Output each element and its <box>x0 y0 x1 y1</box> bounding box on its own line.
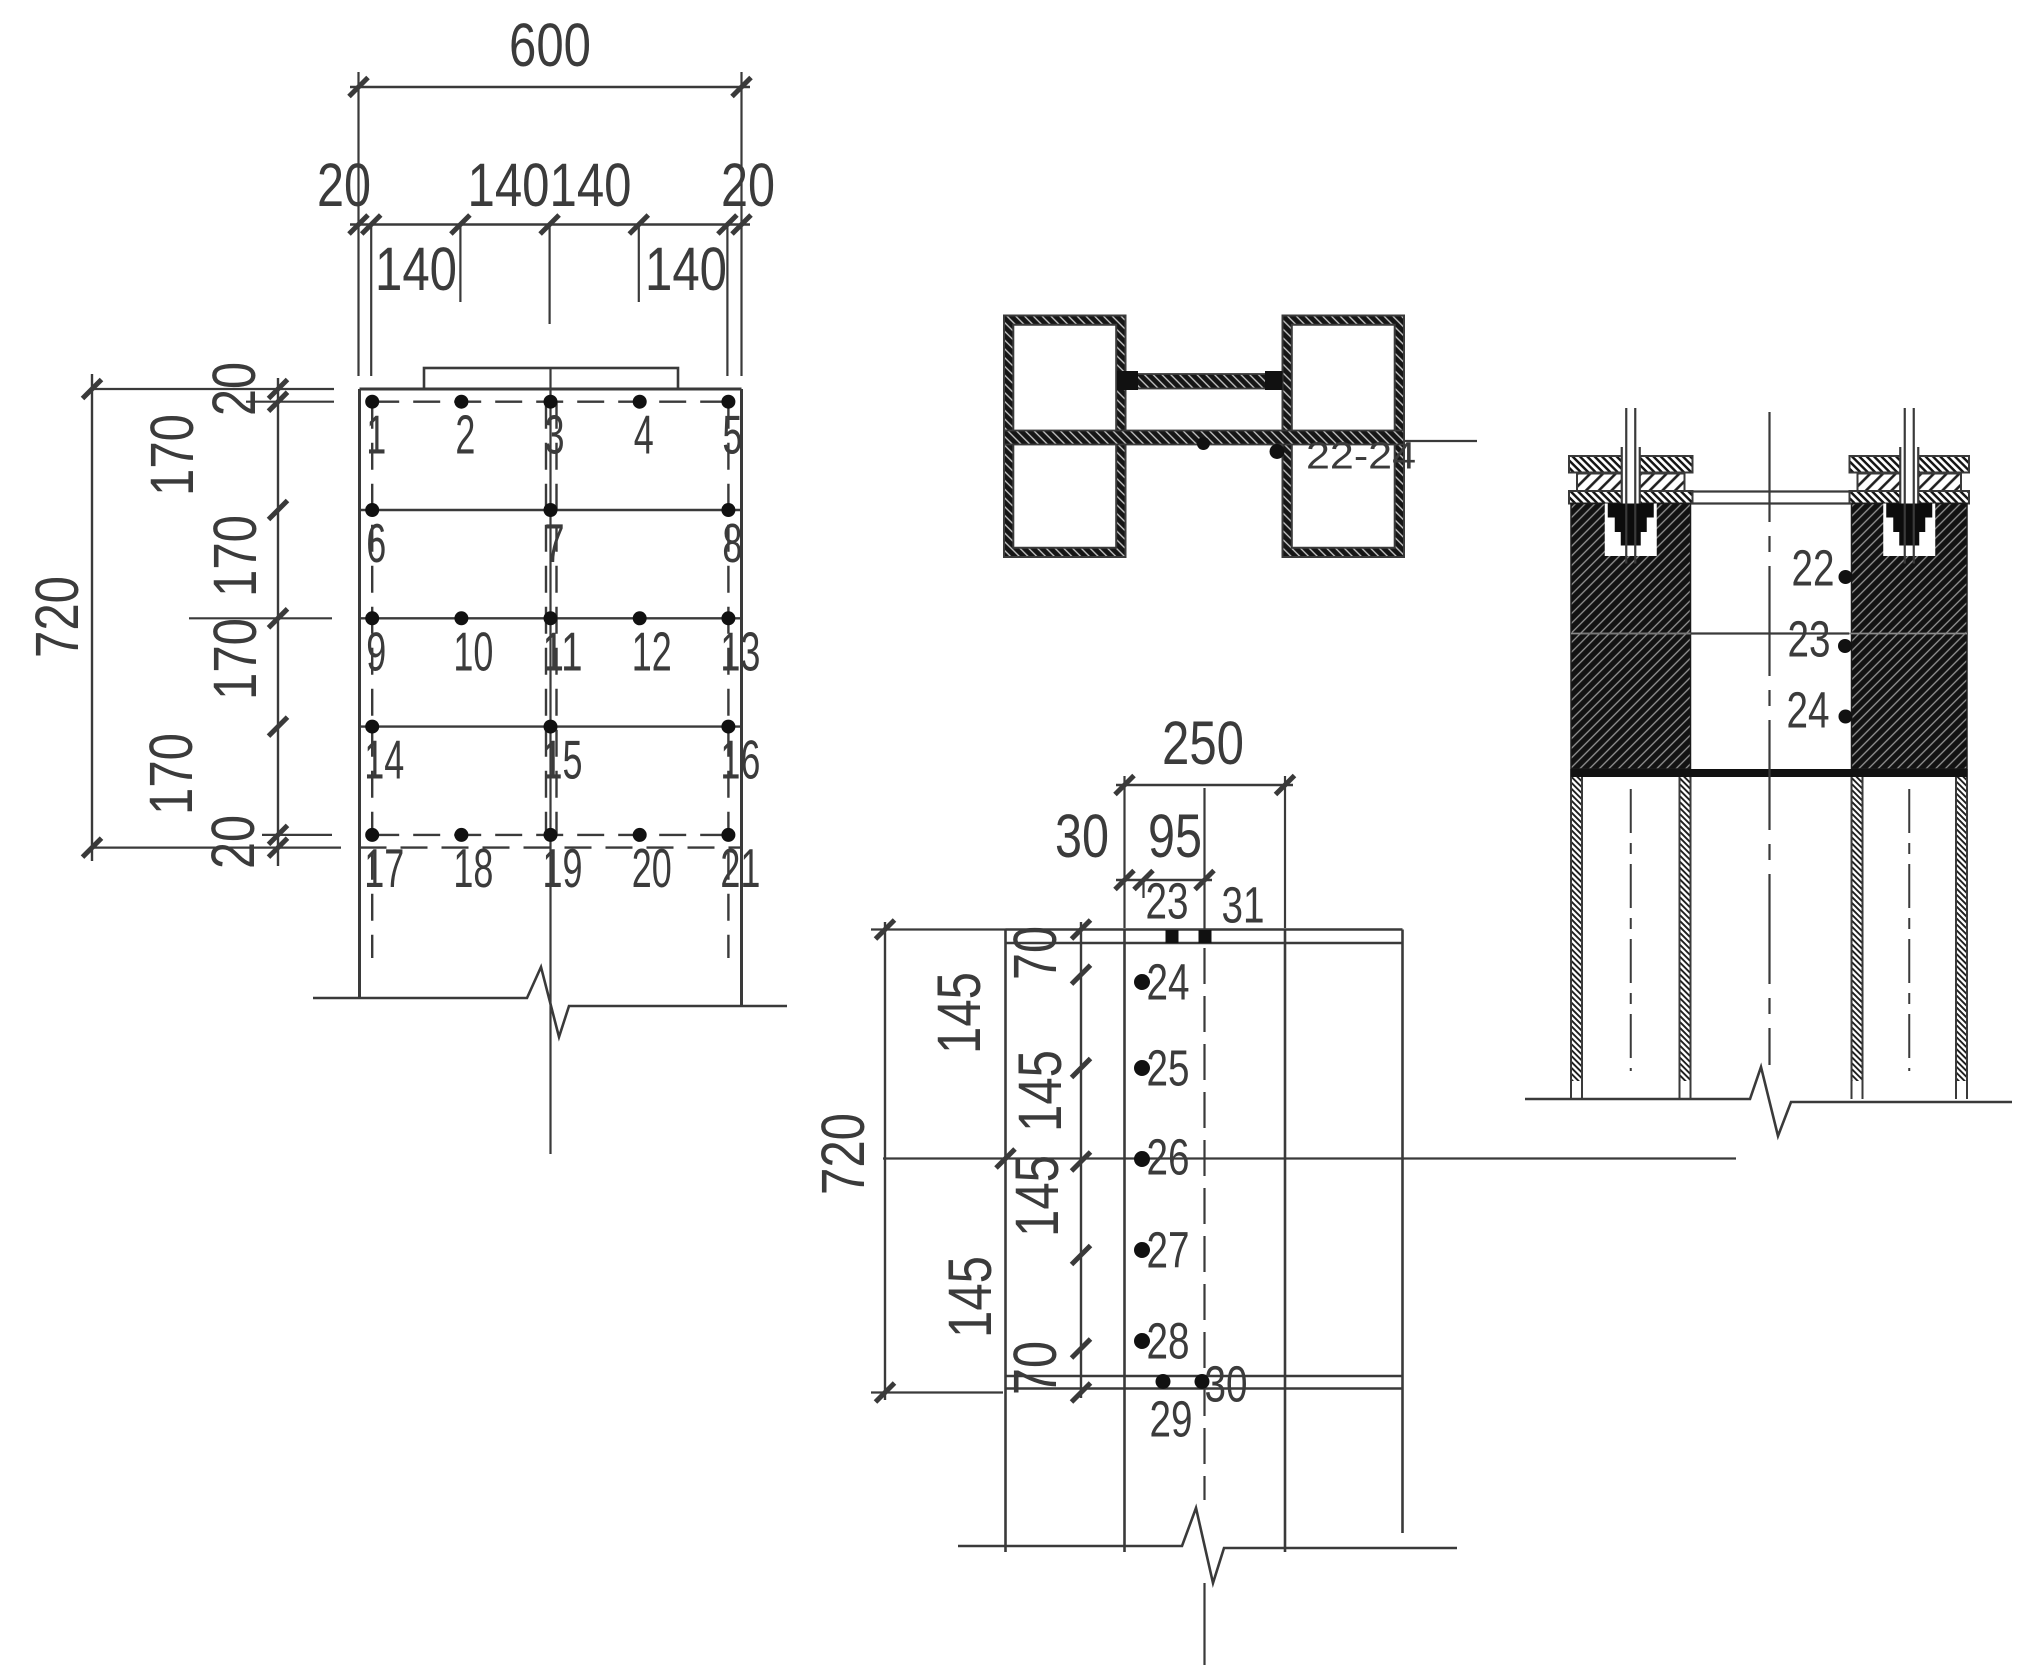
dimension text 70 (top) <box>1001 926 1069 980</box>
dimension chain line 20/140/140/140/140/20 <box>349 215 751 376</box>
svg-text:25: 25 <box>1147 1040 1190 1097</box>
dimension chain 70/145/145/145/145/70 <box>1072 920 1091 1402</box>
dimension text 720 (left) <box>23 576 91 658</box>
svg-text:5: 5 <box>722 404 742 466</box>
dimension text 720 (middle view) <box>809 1113 877 1195</box>
svg-text:170: 170 <box>201 515 269 597</box>
svg-text:2: 2 <box>455 404 475 466</box>
svg-text:250: 250 <box>1162 709 1244 777</box>
measuring point 4 <box>633 395 654 466</box>
svg-text:95: 95 <box>1148 802 1202 870</box>
svg-text:19: 19 <box>543 837 583 899</box>
svg-text:20: 20 <box>632 837 672 899</box>
dimension text 20 (left) <box>317 151 371 219</box>
main centerline (right view) <box>1768 412 1770 1065</box>
svg-text:145: 145 <box>1006 1050 1074 1132</box>
measuring point 19 <box>543 828 583 899</box>
svg-text:170: 170 <box>137 733 205 815</box>
gap top lines <box>1691 492 1852 504</box>
measuring point 8 <box>721 503 742 574</box>
svg-text:1: 1 <box>366 404 386 466</box>
measuring point 10 <box>453 611 493 682</box>
measuring point 15 <box>543 720 583 791</box>
left web line (middle view) <box>1123 930 1126 1553</box>
svg-text:17: 17 <box>364 837 404 899</box>
column outline (left elevation) <box>360 389 742 1006</box>
right outer edge (middle view) <box>1401 930 1404 1534</box>
label 22-24 <box>1306 436 1416 478</box>
svg-text:140: 140 <box>375 235 457 303</box>
svg-text:145: 145 <box>1003 1155 1071 1237</box>
dimension text 170 (segment 4) <box>137 733 205 815</box>
weld block left <box>1117 371 1138 390</box>
break line (right view) <box>1525 1067 2012 1136</box>
dimension line 720 (middle view) <box>871 920 1006 1402</box>
dimension text 140 (staggered left) <box>375 235 457 303</box>
dimension text 145 (seg3) <box>1003 1155 1071 1237</box>
grouted column with anchor bolt (right) <box>1850 408 1970 1099</box>
dimension text 170 (segment 3) <box>201 618 269 700</box>
svg-text:720: 720 <box>809 1113 877 1195</box>
svg-text:10: 10 <box>453 620 493 682</box>
hidden line bottom edge <box>360 846 742 848</box>
svg-text:170: 170 <box>138 414 206 496</box>
svg-text:140: 140 <box>645 235 727 303</box>
measuring point 5 <box>721 395 742 466</box>
measuring point 23 (square) <box>1146 873 1189 944</box>
measuring point 14 <box>364 720 404 791</box>
dimension line 250 <box>1115 776 1295 930</box>
measuring point 7 <box>544 503 565 574</box>
svg-text:140: 140 <box>468 151 550 219</box>
dimension text 70 (bottom) <box>1001 1341 1069 1395</box>
dimension text 145 (seg4) <box>936 1256 1004 1338</box>
svg-text:22: 22 <box>1792 540 1835 597</box>
dimension text 140 (mid-left) <box>468 151 550 219</box>
measuring point 13 <box>720 611 760 682</box>
measuring point 16 <box>720 720 760 791</box>
dimension text 250 <box>1162 709 1244 777</box>
dimension text 30 <box>1055 802 1109 870</box>
measuring point 24 <box>1134 954 1190 1011</box>
grout bottom band <box>1571 769 1967 777</box>
dimension text 170 (segment 2) <box>201 515 269 597</box>
svg-text:28: 28 <box>1147 1313 1190 1370</box>
measuring point 27 <box>1134 1222 1190 1279</box>
measuring point 31 (square) <box>1199 877 1265 944</box>
dimension text 170 (segment 1) <box>138 414 206 496</box>
gauge row line 5 (dashed) <box>372 834 728 836</box>
measuring point 22-24 marker <box>1270 444 1285 459</box>
dimension text 95 <box>1148 802 1202 870</box>
extension line top edge <box>92 388 334 390</box>
svg-text:18: 18 <box>453 837 493 899</box>
svg-text:20: 20 <box>317 151 371 219</box>
svg-text:29: 29 <box>1150 1391 1193 1448</box>
svg-text:8: 8 <box>722 512 742 574</box>
svg-text:12: 12 <box>632 620 672 682</box>
measuring point 29 <box>1150 1374 1193 1448</box>
leader line (section) <box>1404 440 1477 442</box>
svg-text:11: 11 <box>543 620 583 682</box>
svg-text:30: 30 <box>1205 1356 1248 1413</box>
measuring point 30 <box>1195 1356 1248 1413</box>
middle web plate (section) <box>1004 431 1404 445</box>
hidden line (web left of center) <box>545 402 547 835</box>
svg-text:70: 70 <box>1001 1341 1069 1395</box>
measuring point 6 <box>365 503 386 574</box>
svg-text:22-24: 22-24 <box>1306 436 1416 478</box>
gauge row line 4 <box>360 725 742 727</box>
svg-text:27: 27 <box>1147 1222 1190 1279</box>
svg-text:145: 145 <box>925 972 993 1054</box>
measuring point 11 <box>543 611 583 682</box>
svg-text:14: 14 <box>364 729 404 791</box>
gauge row line 2 <box>360 509 742 511</box>
dimension text 145 (seg2) <box>1006 1050 1074 1132</box>
left outer edge (middle view) <box>1004 930 1007 1553</box>
hollow tube section (left) <box>1004 316 1126 558</box>
svg-text:6: 6 <box>366 512 386 574</box>
mid horizontal line <box>883 1149 1736 1168</box>
measuring point 2 <box>454 395 475 466</box>
svg-text:23: 23 <box>1788 611 1831 668</box>
dimension text 600 <box>509 11 591 79</box>
measuring point 23 (right view) <box>1788 611 1853 668</box>
svg-text:23: 23 <box>1146 873 1189 930</box>
gauge row line 3 (mid) <box>360 617 742 619</box>
dimension line 600 (top overall width) <box>349 72 751 376</box>
measuring point 28 <box>1134 1313 1190 1370</box>
break line (middle view) <box>958 1508 1457 1583</box>
measuring point 26 <box>1134 1129 1190 1186</box>
svg-text:140: 140 <box>550 151 632 219</box>
measuring point 22 (right view) <box>1792 540 1853 597</box>
svg-text:13: 13 <box>720 620 760 682</box>
dimension text 20 (right) <box>721 151 775 219</box>
svg-text:720: 720 <box>23 576 91 658</box>
dimension chain line 20/170/170/170/170/20 (left) <box>269 378 288 866</box>
measuring point 17 <box>364 828 404 899</box>
gauge row line 1 (dashed) <box>372 401 728 403</box>
svg-text:170: 170 <box>201 618 269 700</box>
svg-text:15: 15 <box>543 729 583 791</box>
extension line row 5 <box>262 834 332 836</box>
hidden line column 1 <box>371 402 373 958</box>
svg-text:600: 600 <box>509 11 591 79</box>
mid seam line <box>1571 633 1967 635</box>
svg-text:16: 16 <box>720 729 760 791</box>
extension line row 1 <box>246 401 334 403</box>
measuring point on web (section) <box>1197 437 1210 450</box>
dimension text 140 (staggered right) <box>645 235 727 303</box>
grouted column with anchor bolt (left) <box>1569 408 1693 1099</box>
dimension text 145 (seg1) <box>925 972 993 1054</box>
svg-text:9: 9 <box>366 620 386 682</box>
svg-text:21: 21 <box>720 837 760 899</box>
dimension text 20 (top of left chain) <box>200 362 268 416</box>
svg-text:145: 145 <box>936 1256 1004 1338</box>
dimension text 140 (mid-right) <box>550 151 632 219</box>
measuring point 18 <box>453 828 493 899</box>
top connecting plate (section) <box>1126 374 1283 389</box>
svg-text:24: 24 <box>1147 954 1190 1011</box>
svg-text:20: 20 <box>199 815 267 869</box>
cap plate on column top <box>424 368 678 389</box>
svg-text:26: 26 <box>1147 1129 1190 1186</box>
svg-text:4: 4 <box>634 404 654 466</box>
dimension line 30/95 <box>1115 871 1214 899</box>
measuring point 24 (right view) <box>1787 682 1853 739</box>
hidden line column 5 <box>727 402 729 958</box>
svg-text:24: 24 <box>1787 682 1830 739</box>
measuring point 20 <box>632 828 672 899</box>
extension line mid row <box>189 617 332 619</box>
measuring point 12 <box>632 611 672 682</box>
weld block right <box>1265 371 1283 390</box>
measuring point 3 <box>544 395 565 466</box>
centerline vertical <box>549 368 551 1154</box>
bottom flange edge (double line) <box>1006 1376 1403 1389</box>
right web line (middle view) <box>1284 930 1287 1553</box>
svg-text:3: 3 <box>545 404 565 466</box>
top flange edge (double line) <box>1006 930 1403 944</box>
centerline (middle view) <box>1203 948 1205 1665</box>
svg-text:70: 70 <box>1001 926 1069 980</box>
svg-text:31: 31 <box>1222 877 1265 934</box>
svg-text:20: 20 <box>721 151 775 219</box>
dimension text 20 (bottom of left chain) <box>199 815 267 869</box>
hollow tube section (right) <box>1283 316 1405 558</box>
measuring point 25 <box>1134 1040 1190 1097</box>
svg-text:7: 7 <box>545 512 565 574</box>
extension line 720 bottom <box>92 846 341 848</box>
measuring point 9 <box>365 611 386 682</box>
svg-text:30: 30 <box>1055 802 1109 870</box>
dimension line 720 (left overall height) <box>83 374 102 861</box>
hidden line (web right of center) <box>555 402 557 835</box>
break line (left elevation bottom) <box>313 967 787 1037</box>
measuring point 21 <box>720 828 760 899</box>
measuring point 1 <box>365 395 386 466</box>
